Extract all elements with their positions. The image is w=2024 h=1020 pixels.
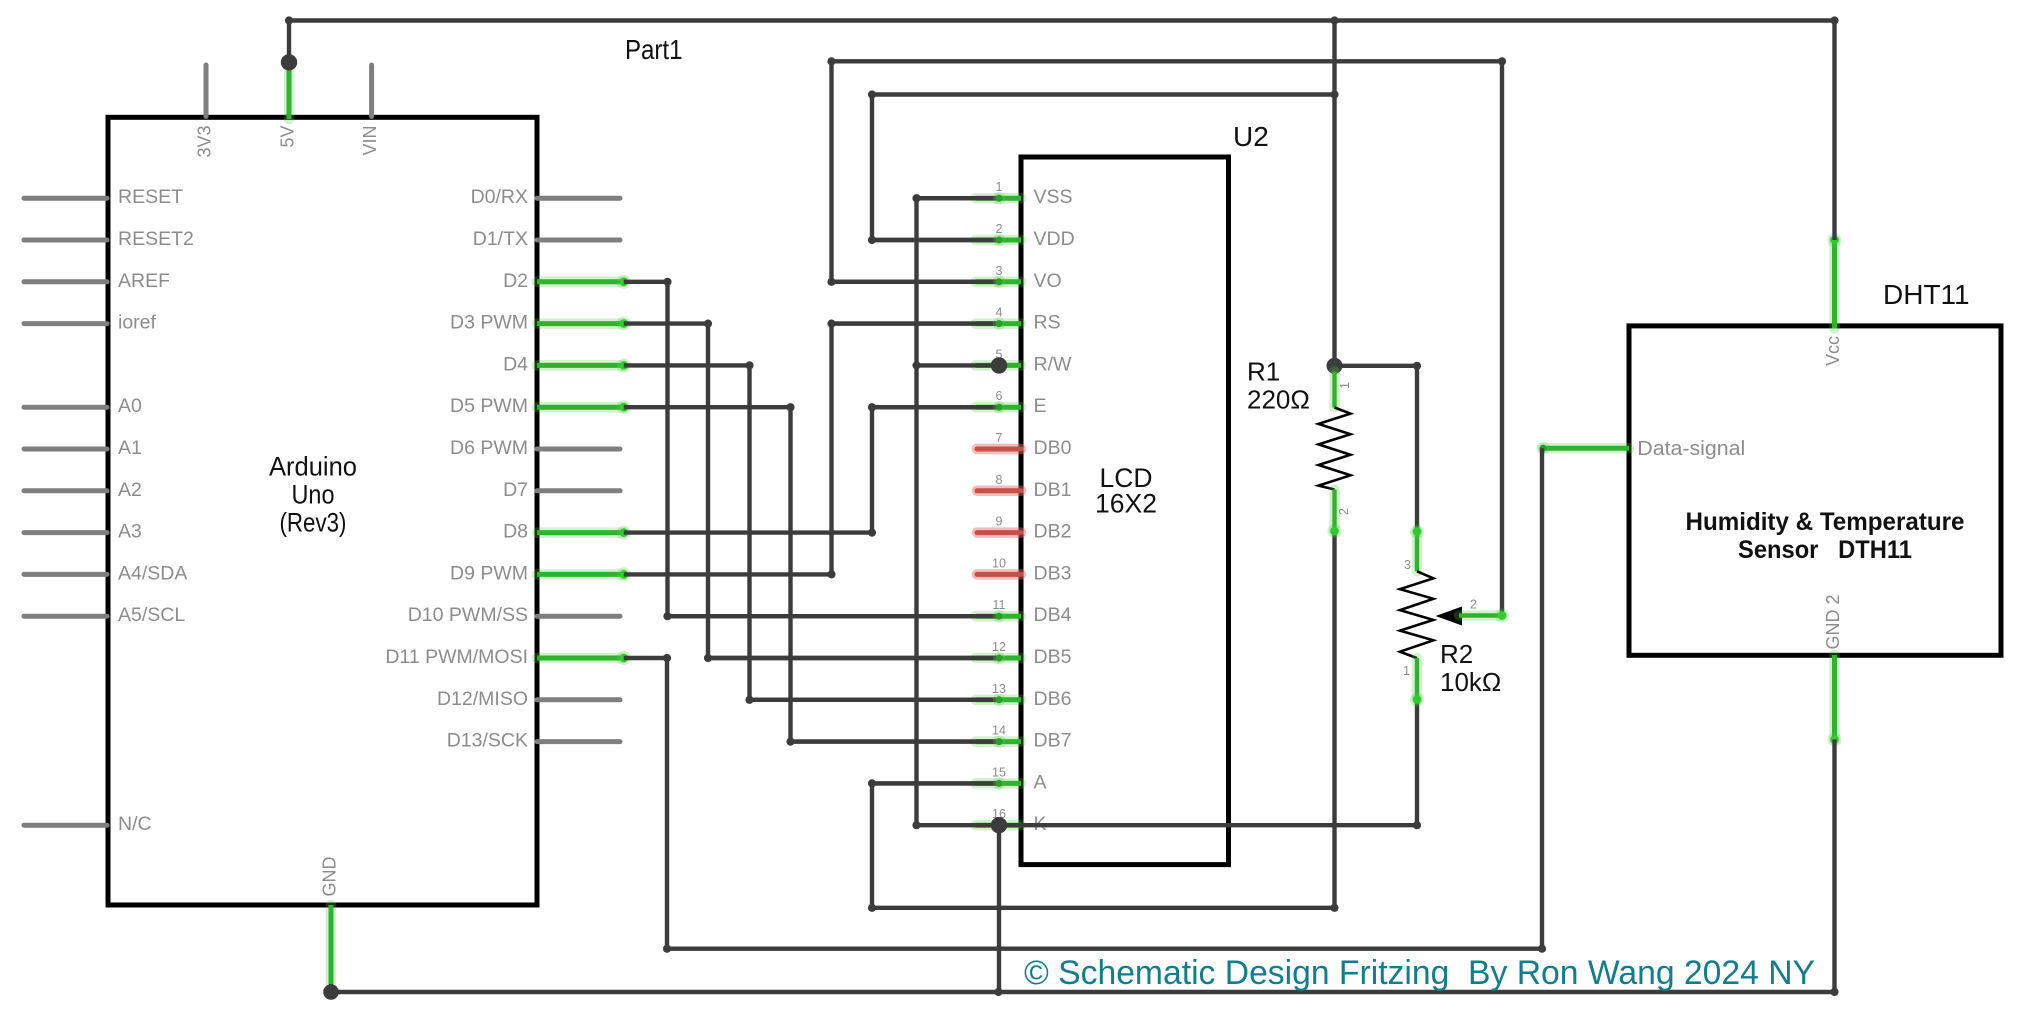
pin AREF (Arduino left) [24,270,170,292]
svg-text:D3 PWM: D3 PWM [450,312,528,334]
svg-text:DB0: DB0 [1034,437,1072,459]
svg-text:VIN: VIN [360,126,380,156]
sensor DHT11 body [1629,326,2001,655]
svg-text:D5 PWM: D5 PWM [450,395,528,417]
svg-text:1: 1 [1338,382,1352,389]
svg-text:DHT11: DHT11 [1883,279,1970,310]
pin A4/SDA (Arduino left) [24,562,187,584]
svg-text:R1: R1 [1247,357,1280,387]
svg-text:Vcc: Vcc [1823,336,1843,366]
pin 15 A (LCD) [976,765,1047,793]
node R/W big dot [991,357,1007,373]
wire end at LCD pin 6 [872,401,1005,413]
pin 5 R/W (LCD) [976,347,1073,375]
svg-text:8: 8 [996,473,1003,487]
svg-text:A4/SDA: A4/SDA [118,562,187,584]
svg-text:A3: A3 [118,521,142,543]
pin A3 (Arduino left) [24,521,142,543]
svg-text:Arduino: Arduino [269,452,357,482]
wire K drop to GND rail [997,825,1001,992]
pin D8 (Arduino right, connected) [503,521,631,543]
wire D5 link [624,405,791,409]
svg-text:DB4: DB4 [1034,604,1072,626]
svg-text:3: 3 [1404,558,1411,572]
svg-text:Uno: Uno [292,480,335,510]
pin 13 DB6 (LCD) [976,682,1072,710]
svg-text:ioref: ioref [118,312,157,334]
pin RESET2 (Arduino left) [24,228,194,250]
wire D11 link [624,656,667,660]
svg-text:5V: 5V [278,126,298,148]
resistor R1 [1319,372,1353,539]
label DHT11 [1883,279,1970,310]
LCD 16X2 label [1095,463,1157,519]
wire K rail [999,823,1417,827]
svg-text:GND 2: GND 2 [1823,594,1843,649]
node GND big dot [323,984,339,1000]
wire D3 link [624,321,708,325]
pin A1 (Arduino left) [24,437,142,459]
pin A2 (Arduino left) [24,479,142,501]
pin 11 DB4 (LCD) [976,598,1072,626]
wire RS riser [829,324,833,575]
svg-text:Data-signal: Data-signal [1637,438,1745,460]
svg-text:9: 9 [996,515,1003,529]
wire D4 link [624,363,750,367]
pin D6 PWM (Arduino right) [450,437,620,459]
wire R1 to R2 rail [1335,364,1418,368]
pin 1 VSS (LCD) [976,180,1073,208]
pin Data-signal (DHT11) [1537,438,1746,460]
LCD U2 body [1021,157,1229,865]
wire RS to pin [832,321,1000,325]
svg-text:© Schematic Design Fritzing B: © Schematic Design Fritzing By Ron Wang … [1024,954,1815,992]
svg-text:RESET: RESET [118,186,183,208]
svg-text:U2: U2 [1233,121,1269,152]
svg-text:DB6: DB6 [1034,688,1072,710]
wire K from column [917,823,1000,827]
svg-text:D2: D2 [503,270,528,292]
wire Data-signal riser [1540,448,1544,948]
wire A rail [872,906,1335,910]
pin Vcc (DHT11) [1823,233,1843,366]
DHT11 body text [1686,508,1965,564]
wire GND bottom rail [331,990,1835,994]
svg-text:GND: GND [320,857,340,897]
pin 10 DB3 (LCD, unconnected) [977,556,1071,584]
wire Vcc drop [1832,21,1836,241]
label Part1 [625,34,683,65]
wire end at LCD pin 15 [872,777,1005,789]
pin 8 DB1 (LCD, unconnected) [977,473,1071,501]
svg-text:R/W: R/W [1034,353,1073,375]
node K big dot [991,817,1007,833]
pin D5 PWM (Arduino right, connected) [450,395,631,417]
svg-text:(Rev3): (Rev3) [280,508,347,538]
pin D2 (Arduino right, connected) [503,270,631,292]
svg-text:Humidity & Temperature: Humidity & Temperature [1686,508,1965,536]
pin RESET (Arduino left) [24,186,183,208]
wire GND2 drop [1832,740,1836,993]
svg-text:D11 PWM/MOSI: D11 PWM/MOSI [385,646,528,668]
svg-text:220Ω: 220Ω [1247,385,1310,415]
pin ioref (Arduino left) [24,312,157,334]
svg-text:D0/RX: D0/RX [471,186,528,208]
pin 7 DB0 (LCD, unconnected) [977,431,1072,459]
wire end at LCD pin 14 [791,735,1006,747]
wire to DB6 [750,698,1000,702]
svg-text:10: 10 [992,556,1006,570]
pin D9 PWM (Arduino right, connected) [450,562,631,584]
wire 5V pin drop [287,21,291,67]
pin D10 PWM/SS (Arduino right) [408,604,620,626]
wire pot wiper riser [1500,61,1504,615]
wire D5 riser [788,407,792,741]
wire D9 run [624,572,832,576]
pin D4 (Arduino right, connected) [503,353,631,375]
wire R2 pin1 drop [1415,700,1419,825]
svg-text:D6 PWM: D6 PWM [450,437,528,459]
svg-text:A2: A2 [118,479,142,501]
wire to DB7 [791,739,1000,743]
pin A0 (Arduino left) [24,395,142,417]
copyright text [1024,954,1815,992]
svg-text:DB5: DB5 [1034,646,1072,668]
svg-text:A0: A0 [118,395,142,417]
svg-text:1: 1 [1403,664,1410,678]
svg-text:2: 2 [1337,508,1351,515]
wire D8 run [624,530,872,534]
label R1 220 [1247,357,1310,415]
wire E riser [870,407,874,532]
wire A riser [870,783,874,907]
svg-text:3V3: 3V3 [195,126,215,158]
svg-text:DB3: DB3 [1034,562,1072,584]
wire GND column [914,198,918,825]
wire end at LCD pin 12 [708,652,1005,664]
wire 5V rail top [289,18,1835,22]
pin D3 PWM (Arduino right, connected) [450,312,631,334]
potentiometer R2 [1400,525,1509,707]
wire D3 riser [706,324,710,658]
label U2 [1233,121,1269,152]
pin 3 VO (LCD) [976,264,1062,292]
svg-text:D4: D4 [503,353,528,375]
wire A to pin [872,781,999,785]
svg-text:D12/MISO: D12/MISO [437,688,528,710]
node 5V big dot [281,54,297,70]
svg-text:N/C: N/C [118,813,152,835]
pin 5V (connected) [278,70,298,148]
wire end at LCD pin 13 [750,694,1006,706]
pin A5/SCL (Arduino left) [24,604,185,626]
pin 14 DB7 (LCD) [976,724,1072,752]
svg-text:DB1: DB1 [1034,479,1072,501]
pin D13/SCK (Arduino right) [447,730,620,752]
svg-text:E: E [1034,395,1047,417]
svg-text:D13/SCK: D13/SCK [447,730,528,752]
pin 12 DB5 (LCD) [976,640,1072,668]
svg-text:D1/TX: D1/TX [473,228,528,250]
label R2 10k [1440,639,1501,697]
svg-text:DB2: DB2 [1034,521,1072,543]
wire 5V to R1 column [1332,21,1336,366]
wire VSS to pin [917,196,1000,200]
wire end at LCD pin 3 [832,276,1006,288]
IC Part1 Arduino Uno body [108,117,537,905]
pin D11 PWM/MOSI (Arduino right, connected) [385,646,630,668]
pin 6 E (LCD) [976,389,1047,417]
svg-text:RS: RS [1034,312,1061,334]
wire end at LCD pin 4 [832,317,1006,329]
wire D11 bottom rail [667,947,1542,951]
wire GND pin tail [329,984,333,992]
wire to DB5 [708,656,999,660]
svg-text:D7: D7 [503,479,528,501]
pin GND 2 (DHT11) [1823,594,1843,746]
svg-text:16X2: 16X2 [1095,489,1157,519]
pin 16 K (LCD) [976,807,1047,835]
pin N/C (Arduino left) [24,813,152,835]
svg-text:VDD: VDD [1034,228,1075,250]
pin 2 VDD (LCD) [976,222,1075,250]
svg-text:D8: D8 [503,521,528,543]
wire D2 link [624,280,668,284]
pin 9 DB2 (LCD, unconnected) [977,515,1071,543]
wire D2 riser [665,282,669,616]
pin D0/RX (Arduino right) [471,186,620,208]
svg-text:R2: R2 [1440,639,1473,669]
svg-text:Part1: Part1 [625,34,683,65]
svg-text:AREF: AREF [118,270,170,292]
svg-text:VSS: VSS [1034,186,1073,208]
wire R1 bottom drop [1332,531,1336,908]
svg-text:VO: VO [1034,270,1062,292]
wire junction dots [285,16,1839,996]
Arduino Uno label [269,452,357,538]
svg-text:7: 7 [996,431,1003,445]
svg-text:Sensor DTH11: Sensor DTH11 [1738,536,1912,564]
svg-text:A: A [1034,771,1047,793]
svg-text:2: 2 [1470,598,1477,612]
svg-text:A5/SCL: A5/SCL [118,604,185,626]
wire VDD rail [872,92,1335,96]
wire R2 pin3 drop [1415,366,1419,531]
wire to DB4 [668,614,1000,618]
wire D11 riser [665,658,669,949]
wire VO riser [829,61,833,281]
pin D7 (Arduino right) [503,479,620,501]
pin 4 RS (LCD) [976,306,1061,334]
wire VO to pin [832,280,1000,284]
node R1 top junction [1327,358,1343,374]
svg-text:D10 PWM/SS: D10 PWM/SS [408,604,528,626]
wire end at LCD pin 1 [917,192,1006,204]
pin GND (Arduino bottom, connected) [320,857,340,985]
wire VDD riser [870,95,874,241]
wire D4 riser [747,365,751,699]
wire R/W to pin [917,363,1000,367]
svg-text:10kΩ: 10kΩ [1440,667,1501,697]
pin D12/MISO (Arduino right) [437,688,620,710]
svg-text:D9 PWM: D9 PWM [450,562,528,584]
svg-text:DB7: DB7 [1034,730,1072,752]
wire end at LCD pin 11 [668,610,1006,622]
pin VIN [360,65,380,156]
wire VDD to pin [872,238,999,242]
wire E to pin [872,405,999,409]
wire end at LCD pin 2 [872,234,1005,246]
pin D1/TX (Arduino right) [473,228,620,250]
wire VO rail [832,59,1503,63]
pin 3V3 [195,65,215,158]
svg-text:A1: A1 [118,437,142,459]
svg-text:RESET2: RESET2 [118,228,194,250]
